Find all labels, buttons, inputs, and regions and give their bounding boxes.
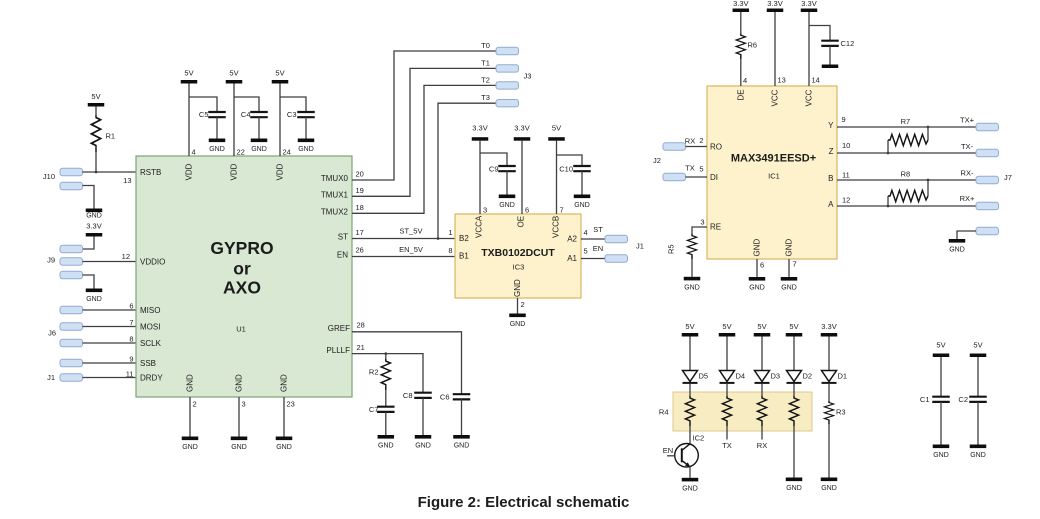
- ground (C9): [499, 195, 516, 210]
- ground (IC1 pin 7): [781, 277, 798, 292]
- power 5V (C1 rail): [933, 341, 950, 358]
- resistor R6: [736, 34, 757, 60]
- svg-text:5: 5: [699, 164, 703, 173]
- svg-text:A2: A2: [567, 234, 577, 243]
- ground (C8): [415, 435, 432, 450]
- power 5V (VDD rail 3): [272, 69, 289, 84]
- ground (C7): [378, 435, 395, 450]
- ground (C3): [298, 139, 315, 154]
- svg-text:5V: 5V: [722, 322, 731, 331]
- wire 3.3V to R6: [740, 12, 742, 34]
- svg-text:24: 24: [283, 148, 291, 157]
- svg-text:7: 7: [793, 260, 797, 269]
- ground (C6): [453, 435, 470, 450]
- wire SSB: [83, 362, 137, 364]
- svg-text:RSTB: RSTB: [140, 168, 161, 177]
- wire 5V to D5: [689, 337, 691, 371]
- svg-text:3.3V: 3.3V: [86, 222, 101, 231]
- resistor R4a: [685, 396, 694, 426]
- svg-text:7: 7: [129, 318, 133, 327]
- svg-text:RX+: RX+: [960, 194, 975, 203]
- svg-text:ST_5V: ST_5V: [400, 227, 423, 236]
- svg-text:6: 6: [525, 206, 529, 215]
- ground (U1 pin 2): [182, 437, 199, 452]
- svg-text:1: 1: [448, 228, 452, 237]
- svg-text:10: 10: [842, 141, 850, 150]
- svg-text:VCC: VCC: [771, 89, 780, 106]
- wire C7 to ground: [385, 412, 387, 435]
- svg-text:J10: J10: [43, 172, 55, 181]
- wire MOSI: [83, 326, 137, 328]
- svg-text:4: 4: [584, 228, 588, 237]
- wire IC1 GND pin 6: [756, 259, 758, 277]
- svg-text:B1: B1: [459, 252, 469, 261]
- svg-text:PLLLF: PLLLF: [326, 346, 350, 355]
- svg-text:VCC: VCC: [805, 89, 814, 106]
- svg-text:or: or: [233, 259, 251, 279]
- svg-text:T1: T1: [481, 59, 490, 68]
- power 3.3V (OE rail): [514, 124, 531, 141]
- svg-text:3: 3: [700, 218, 704, 227]
- svg-text:MISO: MISO: [140, 306, 160, 315]
- op-amp IC3 TXB0102DCUT body: [455, 214, 581, 298]
- IC1 pin numbers: [699, 76, 850, 270]
- svg-text:5V: 5V: [685, 322, 694, 331]
- svg-text:2: 2: [521, 300, 525, 309]
- power 3.3V (VCC rail 13): [767, 0, 784, 12]
- resistor R2: [369, 359, 390, 390]
- wire R4c to RX net: [761, 426, 763, 440]
- wire branch to C9: [480, 153, 507, 166]
- svg-text:B2: B2: [459, 234, 469, 243]
- svg-text:R8: R8: [901, 170, 911, 179]
- capacitor C3: [287, 110, 315, 119]
- U1 pin numbers: [122, 148, 365, 409]
- junction T3/ST_5V: [437, 237, 440, 240]
- svg-text:GND: GND: [753, 239, 762, 257]
- junction R8/A: [887, 205, 890, 208]
- U1 right pin names: [321, 174, 350, 355]
- capacitor C5: [199, 110, 226, 119]
- svg-text:R3: R3: [836, 408, 846, 417]
- resistor network R4 highlight box: [673, 392, 812, 431]
- wire A1 to EN pad: [581, 258, 605, 260]
- capacitor C6: [440, 392, 470, 401]
- wire VCCA rail: [479, 141, 481, 214]
- svg-text:TX+: TX+: [960, 116, 975, 125]
- wire TMUX1 to T1: [352, 68, 496, 196]
- wire 5V to D3: [761, 337, 763, 371]
- wire C9 to ground: [506, 171, 508, 194]
- svg-text:IC2: IC2: [693, 434, 705, 443]
- svg-text:2: 2: [699, 136, 703, 145]
- svg-text:23: 23: [287, 400, 295, 409]
- svg-text:3.3V: 3.3V: [733, 0, 748, 8]
- svg-text:GND: GND: [513, 279, 522, 297]
- svg-text:21: 21: [357, 343, 365, 352]
- wire U1 GND pin 3: [238, 397, 240, 437]
- power 5V (D3 rail): [754, 322, 771, 337]
- ground (C5): [209, 139, 226, 154]
- svg-text:7: 7: [560, 206, 564, 215]
- junction R7/Y: [927, 126, 930, 129]
- power 5V (D2 rail): [786, 322, 803, 337]
- ground (R4d): [786, 478, 803, 493]
- svg-text:TMUX1: TMUX1: [321, 190, 349, 199]
- connector J1 (ST/EN): [605, 235, 644, 262]
- wire D2 to R4d: [793, 384, 795, 396]
- wire VDD rail 2: [233, 84, 235, 157]
- connector J7: [976, 123, 1012, 234]
- power 5V (VCCB rail): [548, 124, 565, 141]
- wire branch to C5: [189, 97, 217, 112]
- wire R6 to DE: [740, 59, 742, 86]
- svg-text:J9: J9: [47, 255, 55, 264]
- ground (J7.5): [949, 239, 966, 254]
- power 5V (VDD rail 2): [226, 69, 243, 84]
- svg-text:3.3V: 3.3V: [514, 124, 529, 133]
- svg-text:5V: 5V: [757, 322, 766, 331]
- svg-text:17: 17: [356, 228, 364, 237]
- svg-text:VDD: VDD: [230, 163, 239, 180]
- svg-text:28: 28: [357, 321, 365, 330]
- svg-text:20: 20: [356, 170, 364, 179]
- svg-text:19: 19: [356, 186, 364, 195]
- svg-text:VDDIO: VDDIO: [140, 257, 165, 266]
- junction PLLLF/R2: [384, 352, 387, 355]
- resistor R4b: [722, 396, 731, 426]
- power 3.3V (VCCA rail): [472, 124, 489, 141]
- wire C6 to ground: [461, 399, 463, 435]
- svg-text:11: 11: [126, 370, 134, 379]
- svg-text:VDD: VDD: [185, 163, 194, 180]
- svg-text:D5: D5: [699, 371, 709, 380]
- wire R4b to TX net: [726, 426, 728, 440]
- svg-text:J7: J7: [1004, 173, 1012, 182]
- svg-text:RX: RX: [685, 137, 695, 146]
- power 3.3V (DE rail): [733, 0, 750, 12]
- wire J10.1 to RSTB pin 13: [83, 171, 137, 173]
- svg-text:AXO: AXO: [223, 278, 261, 298]
- wire TMUX0 to T0: [352, 51, 496, 180]
- wire J7.5 to ground: [957, 231, 976, 239]
- svg-text:TMUX0: TMUX0: [321, 174, 349, 183]
- power 5V (D4 rail): [719, 322, 736, 337]
- wire R2 to C7: [385, 390, 387, 407]
- svg-text:6: 6: [129, 302, 133, 311]
- power 5V (VDD rail 1): [181, 69, 198, 84]
- wire R4d to ground: [793, 426, 795, 478]
- wire R4a to IC2 collector: [689, 426, 691, 444]
- ground (C4): [251, 139, 268, 154]
- svg-text:EN: EN: [593, 244, 603, 253]
- svg-text:TX: TX: [722, 441, 732, 450]
- resistor R3: [824, 401, 845, 424]
- svg-text:B: B: [828, 174, 833, 183]
- wire 3.3V to D1: [828, 337, 830, 371]
- capacitor C4: [241, 110, 268, 119]
- node EN (IC2 base): [663, 446, 675, 456]
- svg-text:GND: GND: [86, 212, 102, 219]
- svg-text:TX: TX: [685, 164, 695, 173]
- power 3.3V (J9 rail): [86, 222, 103, 237]
- svg-text:J3: J3: [524, 72, 532, 81]
- svg-text:5V: 5V: [789, 322, 798, 331]
- wire U1 GND pin 23: [283, 397, 285, 437]
- wire VDD rail 3: [279, 84, 281, 157]
- ground (C12, bar only): [822, 65, 839, 69]
- svg-text:C8: C8: [403, 391, 413, 400]
- svg-text:5V: 5V: [91, 92, 100, 101]
- svg-text:DI: DI: [710, 173, 718, 182]
- svg-text:T0: T0: [481, 41, 490, 50]
- svg-text:ST: ST: [593, 225, 603, 234]
- wire 5V to C1: [940, 357, 942, 397]
- junction R8/B: [927, 179, 930, 182]
- svg-text:3.3V: 3.3V: [472, 124, 487, 133]
- svg-text:5: 5: [584, 247, 588, 256]
- wire Z to TX-: [837, 152, 976, 154]
- ground (IC1 pin 6): [749, 277, 766, 292]
- svg-text:EN_5V: EN_5V: [399, 245, 423, 254]
- svg-text:22: 22: [237, 148, 245, 157]
- diode D5: [683, 371, 709, 383]
- wire 5V to C2: [977, 357, 979, 397]
- svg-text:MOSI: MOSI: [140, 322, 160, 331]
- svg-text:13: 13: [123, 176, 131, 185]
- wire C2 to ground: [977, 402, 979, 445]
- wire RE to R5: [692, 227, 707, 234]
- svg-text:ST: ST: [338, 232, 348, 241]
- wire D4 to R4b: [726, 384, 728, 396]
- connector J9: [47, 245, 82, 278]
- capacitor C2: [958, 395, 986, 404]
- ground (R3): [821, 478, 838, 493]
- wire 5V to D4: [726, 337, 728, 371]
- wire VCC rail 14: [808, 12, 810, 86]
- svg-text:T3: T3: [481, 93, 490, 102]
- svg-text:R5: R5: [667, 244, 676, 254]
- capacitor C7: [369, 405, 395, 414]
- wire TX to DI: [686, 176, 708, 178]
- wire D3 to R4c: [761, 384, 763, 396]
- wire R1 to RSTB net: [95, 152, 97, 172]
- wire C12 to ground: [829, 46, 831, 65]
- svg-text:RE: RE: [710, 222, 721, 231]
- svg-text:GND: GND: [186, 374, 195, 392]
- ground (C10): [574, 195, 591, 210]
- capacitor C8: [403, 391, 432, 400]
- svg-text:J2: J2: [653, 156, 661, 165]
- svg-text:C1: C1: [920, 395, 930, 404]
- svg-text:3: 3: [242, 400, 246, 409]
- svg-text:J6: J6: [48, 329, 56, 338]
- wire RX to RO: [686, 146, 708, 148]
- capacitor C1: [920, 395, 950, 404]
- connector J1 (DRDY): [47, 373, 82, 382]
- svg-text:D3: D3: [771, 371, 781, 380]
- wire IC2 emitter to ground: [689, 467, 691, 478]
- svg-text:D1: D1: [838, 371, 848, 380]
- connector J2: [653, 143, 686, 181]
- svg-text:D4: D4: [736, 371, 746, 380]
- wire branch to C4: [234, 97, 259, 112]
- svg-text:D2: D2: [803, 371, 813, 380]
- wire C1 to ground: [940, 402, 942, 445]
- ground (C2): [970, 445, 987, 460]
- wire EN_5V: [352, 256, 455, 258]
- svg-text:3.3V: 3.3V: [767, 0, 782, 8]
- connector J10: [43, 168, 83, 189]
- svg-text:GND: GND: [235, 374, 244, 392]
- U1 bottom pin names GND: [186, 374, 289, 392]
- wire R3 to ground: [828, 424, 830, 478]
- svg-text:3: 3: [483, 206, 487, 215]
- svg-text:GND: GND: [280, 374, 289, 392]
- svg-text:C9: C9: [489, 165, 499, 174]
- wire IC3 GND pin 2: [517, 298, 519, 314]
- wire U1 GND pin 2: [189, 397, 191, 437]
- wire PLLLF to R2: [385, 354, 387, 359]
- wire D1 to R3: [828, 384, 830, 401]
- capacitor C12: [821, 39, 854, 48]
- svg-text:13: 13: [778, 76, 786, 85]
- ground (IC3 pin 2): [509, 314, 526, 329]
- svg-text:3.3V: 3.3V: [801, 0, 816, 8]
- IC1 pin names: [710, 89, 834, 256]
- svg-text:R7: R7: [901, 117, 911, 126]
- svg-text:DE: DE: [737, 89, 746, 100]
- wire J9.3 to ground: [83, 275, 95, 289]
- power 5V (C2 rail): [970, 341, 987, 358]
- wire ST_5V: [352, 238, 455, 240]
- wire A2 to ST pad: [581, 238, 605, 240]
- svg-text:VDD: VDD: [276, 163, 285, 180]
- svg-text:IC1: IC1: [768, 172, 780, 181]
- svg-text:U1: U1: [236, 325, 246, 334]
- svg-text:4: 4: [192, 148, 196, 157]
- svg-text:R6: R6: [748, 41, 758, 50]
- svg-text:9: 9: [842, 115, 846, 124]
- wire C4 to ground: [258, 117, 260, 138]
- svg-text:T2: T2: [481, 76, 490, 85]
- capacitor C9: [489, 165, 516, 174]
- svg-text:Y: Y: [828, 121, 834, 130]
- wire MISO: [83, 309, 137, 311]
- wire 5V to R1: [95, 107, 97, 116]
- IC3 pin names: [459, 215, 578, 297]
- ground (U1 pin 23): [276, 437, 293, 452]
- svg-text:2: 2: [193, 400, 197, 409]
- wire B to RX-: [837, 179, 976, 181]
- op-amp U1 GYPRO or AXO body: [136, 156, 352, 397]
- svg-text:GYPRO: GYPRO: [210, 238, 273, 258]
- wire OE rail: [521, 141, 523, 214]
- wire PLLLF: [352, 354, 423, 393]
- svg-text:4: 4: [743, 76, 747, 85]
- resistor R1: [91, 115, 115, 152]
- power 3.3V (VCC rail 14): [801, 0, 818, 12]
- svg-text:18: 18: [356, 203, 364, 212]
- junction R1/RSTB: [95, 171, 98, 174]
- svg-text:C12: C12: [841, 39, 855, 48]
- svg-text:26: 26: [356, 246, 364, 255]
- svg-text:5V: 5V: [275, 69, 284, 78]
- diode D3: [755, 371, 781, 383]
- IC3 pin numbers: [448, 206, 587, 310]
- svg-text:TX-: TX-: [961, 142, 974, 151]
- svg-text:EN: EN: [337, 250, 348, 259]
- wire 3.3V to J9.1: [83, 237, 95, 250]
- svg-text:R2: R2: [369, 368, 379, 377]
- wire VCCB rail: [556, 141, 558, 214]
- svg-text:VCCB: VCCB: [552, 216, 561, 238]
- svg-text:C7: C7: [369, 405, 379, 414]
- svg-text:J1: J1: [47, 373, 55, 382]
- diode D2: [787, 371, 813, 383]
- svg-text:RX-: RX-: [961, 169, 974, 178]
- wire R5 to ground: [691, 259, 693, 277]
- svg-text:12: 12: [842, 196, 850, 205]
- svg-text:14: 14: [812, 76, 820, 85]
- svg-text:5V: 5V: [936, 341, 945, 350]
- wire T3 to ST_5V net: [438, 103, 496, 238]
- svg-text:MAX3491EESD+: MAX3491EESD+: [731, 153, 816, 165]
- ground (C1): [933, 445, 950, 460]
- U1 left pin names: [140, 168, 165, 382]
- svg-text:TMUX2: TMUX2: [321, 207, 349, 216]
- svg-text:OE: OE: [517, 216, 526, 228]
- wire GREF to C6: [352, 332, 462, 394]
- svg-text:EN: EN: [663, 446, 673, 455]
- svg-text:DRDY: DRDY: [140, 373, 163, 382]
- wire J10.2 to ground: [83, 186, 95, 209]
- transistor IC2: [675, 434, 704, 468]
- ground (J10.2): [86, 209, 103, 220]
- wire C10 to ground: [581, 171, 583, 194]
- svg-text:GND: GND: [785, 239, 794, 257]
- svg-text:9: 9: [129, 355, 133, 364]
- wire D5 to R4a: [689, 384, 691, 396]
- ground (IC2): [682, 478, 699, 493]
- svg-text:3.3V: 3.3V: [821, 322, 836, 331]
- resistor R4d: [789, 396, 798, 426]
- svg-text:5V: 5V: [552, 124, 561, 133]
- svg-text:C5: C5: [199, 110, 209, 119]
- svg-text:IC3: IC3: [513, 263, 525, 272]
- svg-text:GREF: GREF: [328, 324, 350, 333]
- diode D4: [720, 371, 746, 383]
- wire C8 to ground: [422, 398, 424, 435]
- wire J9.2 to VDDIO pin 12: [83, 261, 137, 263]
- wire branch to C12: [809, 26, 830, 41]
- junction R7/Z: [887, 152, 890, 155]
- svg-text:11: 11: [842, 171, 850, 180]
- wire 5V to D2: [793, 337, 795, 371]
- connector J3: [496, 47, 531, 107]
- wire C5 to ground: [216, 117, 218, 138]
- wire Y to TX+: [837, 126, 976, 128]
- resistor R4c: [757, 396, 766, 426]
- svg-text:8: 8: [448, 246, 452, 255]
- wire VDD rail 1: [188, 84, 190, 157]
- svg-text:8: 8: [129, 335, 133, 344]
- svg-text:C4: C4: [241, 110, 251, 119]
- wire TMUX2 to T2: [352, 85, 496, 213]
- connector J6: [48, 306, 82, 366]
- svg-text:SCLK: SCLK: [140, 339, 162, 348]
- svg-text:C10: C10: [559, 165, 573, 174]
